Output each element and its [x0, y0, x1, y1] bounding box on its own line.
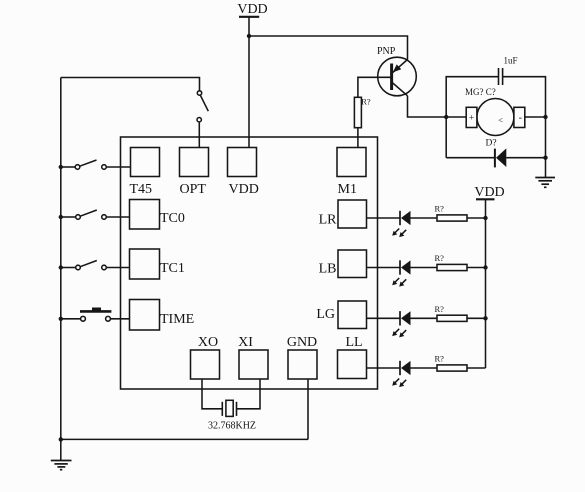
svg-text:LL: LL [345, 335, 362, 350]
pad VDD [228, 148, 257, 177]
svg-text:TIME: TIME [160, 312, 194, 327]
svg-text:32.768KHZ: 32.768KHZ [208, 421, 256, 432]
junction motor right [543, 115, 547, 119]
svg-text:TC1: TC1 [160, 261, 185, 276]
wire R1 to M1 pad [357, 128, 359, 148]
svg-text:T45: T45 [130, 182, 153, 197]
pad M1 [337, 148, 366, 177]
svg-text:LG: LG [316, 307, 335, 322]
pad T45 [131, 148, 160, 177]
wire S2 to T45 pad [106, 166, 130, 168]
switch S4 [76, 261, 107, 270]
wire R2 to rail [467, 217, 486, 219]
junction rail LED3 [483, 316, 487, 320]
wire S1 to OPT pad [198, 122, 200, 148]
wire bus to S2 [61, 166, 75, 168]
junction rail LED1 [483, 216, 487, 220]
resistor R3 [437, 264, 467, 270]
wire diode row left [446, 157, 495, 159]
resistor R1 [354, 97, 361, 127]
pad LL [338, 350, 367, 379]
svg-text:XI: XI [238, 335, 253, 350]
wire LED2 to R3 [411, 267, 438, 269]
ground (right) [535, 178, 555, 188]
wire VDD rail [485, 199, 487, 368]
pad TC0 [130, 200, 160, 230]
LED D1 [392, 211, 410, 237]
svg-text:R?: R? [361, 97, 371, 107]
pad XI [239, 350, 268, 379]
svg-text:OPT: OPT [180, 182, 207, 197]
wire Q1 base to R1 [358, 77, 392, 97]
transistor Q1 PNP [378, 57, 417, 96]
junction rail LED2 [483, 265, 487, 269]
wire R4 to rail [467, 317, 486, 319]
LED D3 [392, 311, 410, 337]
wire bus to S4 [61, 267, 76, 269]
wire XO pad to crystal [202, 379, 222, 409]
svg-text:VDD: VDD [237, 2, 267, 17]
svg-text:GND: GND [287, 335, 317, 350]
wire ground bus [60, 78, 62, 461]
switch S3 [76, 210, 107, 219]
wire R3 to rail [467, 267, 486, 269]
junction bus S3 [59, 215, 63, 219]
wire capacitor left branch [446, 77, 498, 158]
wire LED1 to R2 [411, 217, 438, 219]
wire GND pad down [307, 379, 309, 439]
wire LL pad to LED4 [367, 367, 401, 369]
capacitor C1 [499, 68, 503, 85]
wire S3 to TC0 pad [106, 216, 129, 218]
svg-text:D?: D? [486, 139, 497, 149]
svg-text:LB: LB [319, 262, 337, 277]
pad TIME [130, 300, 160, 331]
resistor R2 [437, 215, 467, 221]
svg-text:1uF: 1uF [504, 56, 518, 66]
svg-text:TC0: TC0 [160, 211, 185, 226]
pushbutton S5 [80, 308, 111, 322]
wire capacitor right branch [503, 77, 546, 178]
wire motor to right branch [525, 116, 546, 118]
junction collector/capacitor branch [444, 115, 448, 119]
switch S1 (OPT) [197, 91, 208, 122]
wire LG pad to LED3 [367, 317, 401, 319]
wire VDD branch to Q1 emitter [249, 36, 408, 60]
wire LB pad to LED2 [367, 267, 401, 269]
resistor R4 [437, 315, 467, 321]
motor MG1 [466, 99, 525, 136]
wire GND row to bus [61, 438, 308, 440]
svg-text:MG? C?: MG? C? [465, 87, 496, 97]
svg-text:<: < [498, 115, 503, 125]
junction diode right [543, 156, 547, 160]
junction bus S5 [59, 317, 63, 321]
wire diode row right [506, 157, 545, 159]
wire bus to S3 [61, 216, 76, 218]
svg-text:VDD: VDD [229, 182, 259, 197]
ground (left) [51, 461, 72, 470]
wire bus top to OPT switch [61, 78, 200, 91]
LED D2 [392, 260, 410, 286]
svg-text:+: + [469, 114, 474, 124]
wire Q1 collector to motor [408, 96, 467, 117]
switch S2 [75, 160, 106, 169]
wire LED3 to R4 [411, 317, 438, 319]
svg-text:VDD: VDD [474, 185, 504, 200]
pad TC1 [130, 249, 160, 279]
svg-text:R?: R? [435, 304, 445, 314]
pad LB [338, 250, 367, 278]
resistor R5 [437, 365, 467, 371]
svg-text:PNP: PNP [377, 46, 396, 57]
pad LR [338, 200, 367, 228]
svg-text:XO: XO [198, 335, 218, 350]
wire VDD to U1 VDD pad [248, 17, 250, 148]
junction bus S2 [59, 165, 63, 169]
svg-text:LR: LR [319, 213, 338, 228]
svg-text:-: - [519, 113, 522, 124]
pad LG [338, 301, 367, 329]
diode D7 [495, 148, 506, 167]
wire LED4 to R5 [411, 367, 438, 369]
svg-text:R?: R? [435, 253, 445, 263]
pad GND [288, 350, 317, 379]
wire S4 to TC1 pad [106, 267, 129, 269]
crystal Y1 [222, 400, 236, 416]
wire bus to S5 [61, 318, 81, 320]
wire LR pad to LED1 [367, 217, 401, 219]
wire S5 to TIME pad [111, 318, 130, 320]
junction bus S4 [59, 265, 63, 269]
wire crystal to XI pad [237, 379, 261, 409]
junction bus GND [59, 437, 63, 441]
power VDD (LED rail) [474, 185, 504, 200]
pad OPT [180, 148, 209, 177]
svg-text:R?: R? [435, 204, 445, 214]
svg-text:M1: M1 [338, 182, 357, 197]
IC U1 [121, 137, 378, 389]
junction at VDD branch [247, 34, 251, 38]
svg-text:R?: R? [435, 354, 445, 364]
wire R5 to rail [467, 367, 486, 369]
LED D4 [392, 361, 410, 387]
pad XO [191, 350, 220, 379]
power VDD (top) [237, 2, 267, 17]
